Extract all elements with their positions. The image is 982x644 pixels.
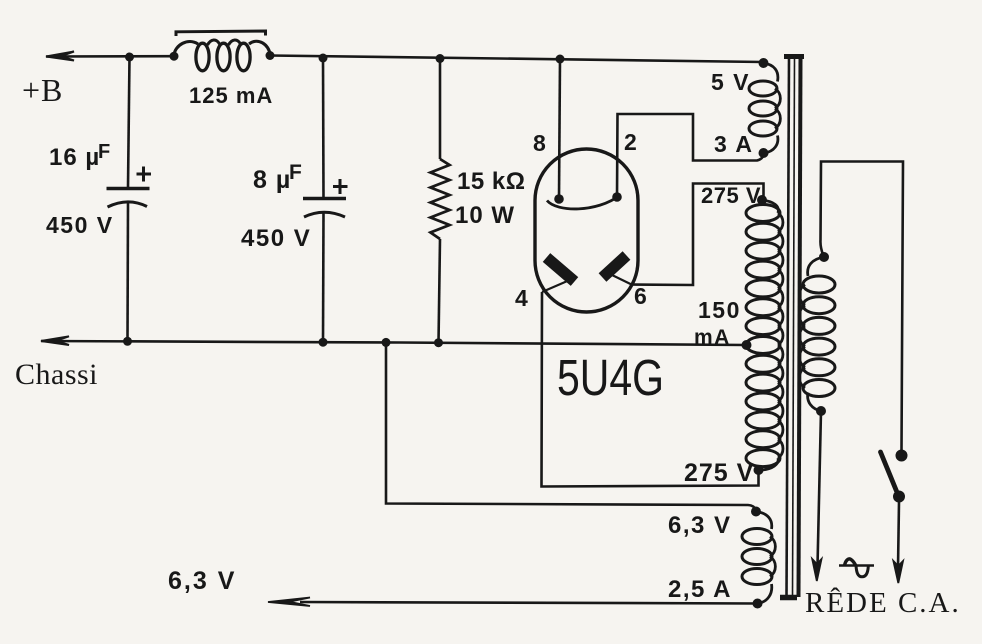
tube filament arc	[547, 196, 620, 209]
svg-text:15 kΩ: 15 kΩ	[457, 168, 525, 195]
tube anode plate pin 6 (right bar)	[603, 256, 627, 278]
mains arrow (primary side)	[812, 559, 821, 581]
transformer core bottom cap	[780, 595, 797, 601]
svg-text:6,3 V: 6,3 V	[168, 567, 236, 595]
inductor L1 winding	[170, 52, 179, 61]
svg-text:2,5 A: 2,5 A	[668, 576, 732, 603]
svg-text:F: F	[98, 141, 110, 163]
node on top bus at C1	[125, 53, 134, 62]
chassis bus wire	[41, 341, 746, 345]
wire primary bottom to mains arrow	[818, 411, 822, 566]
svg-text:8: 8	[533, 130, 546, 156]
capacitor C1 top plate	[107, 187, 150, 190]
node chassis at C1	[123, 337, 132, 346]
transformer core top cap	[784, 54, 804, 59]
svg-text:8 µ: 8 µ	[253, 166, 291, 194]
inductor L1 choke 125 mA : core bar	[176, 31, 266, 36]
svg-text:450 V: 450 V	[241, 225, 311, 252]
transformer 6.3V winding	[742, 529, 772, 545]
transformer 5V winding	[749, 81, 777, 96]
capacitor C1 bottom plate (curved)	[108, 202, 148, 207]
svg-text:F: F	[289, 161, 302, 184]
svg-text:5 V: 5 V	[711, 69, 750, 95]
transformer T1 core laminations	[787, 58, 790, 597]
wire pin 2 to 5V/3A winding	[617, 114, 764, 197]
node chassis at R1	[434, 338, 443, 347]
svg-text:450 V: 450 V	[46, 212, 114, 238]
svg-text:275 V: 275 V	[701, 183, 761, 208]
node chassis at C2	[319, 338, 328, 347]
node on top bus at pin 8 branch	[556, 55, 565, 64]
svg-text:6,3 V: 6,3 V	[668, 512, 732, 539]
node on top bus at R1	[436, 54, 445, 63]
pin 6 internal lead	[612, 275, 632, 285]
tube V1 5U4G envelope	[535, 149, 638, 312]
capacitor C2 plus sign	[333, 179, 348, 194]
switch S1 upper contact dot	[896, 450, 908, 462]
svg-text:+B: +B	[22, 72, 63, 108]
chassis arrow head	[41, 336, 69, 345]
capacitor C2 bottom plate (curved)	[304, 212, 345, 217]
svg-text:275 V: 275 V	[684, 459, 754, 487]
wire pin 4 to 275V bottom tap	[542, 292, 759, 487]
svg-text:125 mA: 125 mA	[189, 83, 273, 108]
wire +B output bus (top rail)	[46, 56, 763, 63]
tube pin 8 terminal dot	[554, 194, 564, 204]
capacitor C2 8uF 450V : top lead	[322, 58, 325, 198]
resistor R1 15k 10W : top lead	[439, 59, 442, 160]
node chassis at 6.3V branch	[382, 338, 391, 347]
tube pin 8 lead from top bus	[559, 59, 560, 198]
svg-text:4: 4	[515, 285, 528, 311]
wire chassis to 6.3V winding top	[386, 342, 756, 510]
capacitor C2 top plate	[303, 197, 346, 200]
5V winding top terminal dot	[759, 58, 769, 68]
svg-text:10 W: 10 W	[455, 202, 515, 229]
tube anode plate pin 4 (left bar)	[547, 258, 575, 282]
transformer primary winding	[803, 276, 835, 293]
svg-text:150: 150	[698, 297, 741, 323]
+B arrow head	[46, 52, 74, 61]
node on top bus at C2	[319, 54, 328, 63]
tube pin 2 terminal dot	[612, 192, 622, 202]
svg-text:5U4G: 5U4G	[557, 349, 664, 406]
mains arrow (switch side)	[893, 561, 903, 583]
HV bottom terminal dot (275V)	[754, 465, 764, 475]
wire pin 6 to 275V top tap	[632, 184, 764, 286]
wire primary top to switch	[820, 162, 903, 451]
capacitor C2 bottom lead	[322, 213, 325, 342]
switch S1 lower contact dot	[893, 491, 905, 503]
resistor R1 bottom lead	[439, 239, 441, 343]
resistor R1 zigzag body	[431, 159, 450, 239]
HV centre tap dot (150 mA)	[742, 340, 752, 350]
svg-text:2: 2	[624, 129, 637, 155]
capacitor C1 plus sign	[137, 167, 152, 182]
primary bottom terminal dot	[816, 406, 826, 416]
6.3V bottom terminal dot	[753, 599, 763, 609]
svg-text:mA: mA	[694, 326, 731, 349]
primary top terminal dot	[819, 252, 829, 262]
5V winding bottom terminal dot	[759, 148, 769, 158]
switch S1 lever	[881, 452, 898, 494]
svg-text:16 µ: 16 µ	[49, 144, 100, 171]
transformer HV winding 275-0-275	[746, 205, 780, 222]
wire 6.3V winding bottom to output arrow	[300, 602, 758, 604]
capacitor C1 16uF 450V : top lead	[128, 57, 130, 187]
svg-text:6: 6	[634, 283, 647, 309]
wire switch to mains arrow	[898, 502, 899, 568]
6.3V output arrow head	[268, 598, 310, 607]
pin 4 internal lead	[542, 279, 572, 292]
svg-text:Chassi: Chassi	[15, 358, 98, 391]
AC symbol	[839, 564, 874, 567]
capacitor C1 bottom lead	[126, 203, 129, 341]
HV top terminal dot (275V)	[757, 195, 767, 205]
svg-text:3 A: 3 A	[714, 131, 753, 157]
svg-text:RÊDE C.A.: RÊDE C.A.	[805, 586, 961, 619]
6.3V top terminal dot	[751, 507, 761, 517]
